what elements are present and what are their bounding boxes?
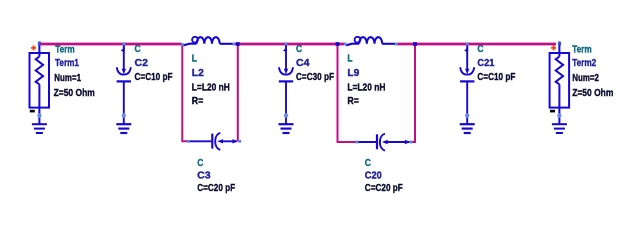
svg-text:C: C xyxy=(365,157,372,169)
svg-text:R=: R= xyxy=(347,95,359,107)
svg-text:C3: C3 xyxy=(197,170,211,182)
svg-text:C=C30 pF: C=C30 pF xyxy=(296,71,334,83)
svg-text:Num=2: Num=2 xyxy=(572,72,599,84)
svg-text:C21: C21 xyxy=(477,57,494,69)
svg-text:C2: C2 xyxy=(135,57,149,69)
svg-text:C=C20 pF: C=C20 pF xyxy=(197,182,235,194)
svg-text:Term: Term xyxy=(572,43,592,55)
svg-text:L: L xyxy=(347,52,353,64)
svg-text:C=C10 pF: C=C10 pF xyxy=(135,71,173,83)
svg-text:C4: C4 xyxy=(296,57,310,69)
svg-text:C20: C20 xyxy=(365,170,382,182)
svg-text:Term2: Term2 xyxy=(572,57,596,69)
svg-text:C=C20 pF: C=C20 pF xyxy=(365,182,403,194)
svg-text:Z=50 Ohm: Z=50 Ohm xyxy=(54,87,95,99)
svg-text:C: C xyxy=(197,157,204,169)
svg-text:C=C10 pF: C=C10 pF xyxy=(477,71,515,83)
svg-text:Z=50 Ohm: Z=50 Ohm xyxy=(572,87,613,99)
svg-text:R=: R= xyxy=(192,95,204,107)
svg-text:L9: L9 xyxy=(347,67,359,79)
svg-text:Term1: Term1 xyxy=(55,57,79,69)
svg-text:L=L20 nH: L=L20 nH xyxy=(192,81,230,93)
svg-text:L2: L2 xyxy=(192,67,204,79)
svg-text:Num=1: Num=1 xyxy=(54,72,81,84)
svg-text:L: L xyxy=(192,52,198,64)
svg-text:L=L20 nH: L=L20 nH xyxy=(347,81,385,93)
